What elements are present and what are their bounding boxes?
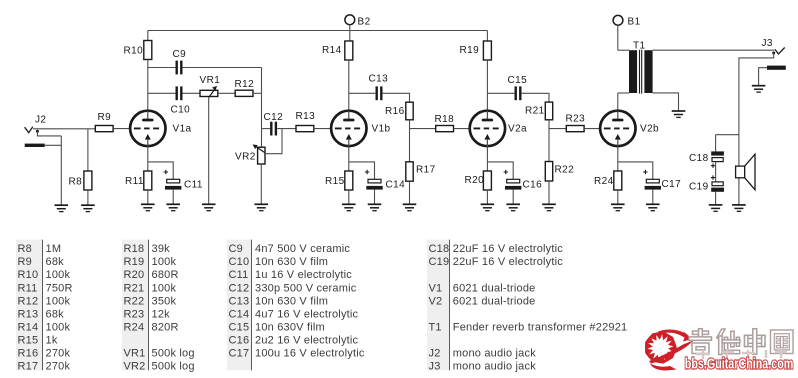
svg-text:VR1: VR1 <box>200 75 221 86</box>
wire J2 to R9 <box>33 128 95 130</box>
wire V2a cathode <box>486 146 488 171</box>
svg-text:22uF 16 V electrolytic: 22uF 16 V electrolytic <box>453 243 563 255</box>
svg-text:R9: R9 <box>18 256 32 268</box>
svg-text:C19: C19 <box>429 256 450 268</box>
ground C19 <box>709 205 723 211</box>
svg-text:R13: R13 <box>296 111 316 122</box>
wire VR1 wiper to ground <box>208 97 210 204</box>
wire VR2 to ground <box>260 164 262 204</box>
svg-text:B1: B1 <box>628 17 641 28</box>
svg-text:C13: C13 <box>369 74 389 85</box>
wire R10 to V1a plate <box>147 60 149 111</box>
ground R20 <box>481 204 495 210</box>
svg-text:Fender reverb transformer #229: Fender reverb transformer #22921 <box>453 322 628 334</box>
resistor R15 <box>325 171 353 190</box>
wire node A to C12 <box>262 128 271 130</box>
svg-text:J2: J2 <box>429 348 441 360</box>
wire C9 to node A <box>183 67 262 69</box>
wire C15 to R21 <box>522 93 549 102</box>
svg-text:T1: T1 <box>429 322 442 334</box>
watermark ghost row <box>696 349 787 359</box>
svg-text:C19: C19 <box>689 182 709 193</box>
svg-text:R18: R18 <box>124 243 145 255</box>
capacitor C16 <box>504 170 542 191</box>
svg-text:350k: 350k <box>152 295 177 307</box>
capacitor C15 <box>508 75 528 100</box>
watermark text 吉他中国 (drawn) <box>689 329 793 355</box>
ground R22 <box>542 204 556 210</box>
capacitor C11 <box>164 170 203 191</box>
svg-text:10n 630 V film: 10n 630 V film <box>255 256 328 268</box>
capacitor C17 <box>643 170 681 190</box>
svg-text:500k log: 500k log <box>152 361 195 373</box>
svg-text:C10: C10 <box>171 105 191 116</box>
wire T1 primary bottom <box>618 92 629 94</box>
resistor R19 <box>460 41 492 60</box>
wire R17 bottom lead <box>409 181 411 204</box>
svg-text:B2: B2 <box>358 17 371 28</box>
wire C17 bottom lead <box>652 190 654 205</box>
svg-text:100k: 100k <box>46 322 71 334</box>
wire R14 to V1b plate <box>348 60 350 111</box>
svg-text:12k: 12k <box>152 308 171 320</box>
ground C11 <box>166 204 180 210</box>
svg-text:C9: C9 <box>173 49 187 60</box>
svg-text:R17: R17 <box>416 165 436 176</box>
svg-text:R21: R21 <box>124 282 145 294</box>
svg-text:R15: R15 <box>18 335 39 347</box>
wire R20 bottom lead <box>486 190 488 204</box>
svg-text:R19: R19 <box>124 256 145 268</box>
ground J3 <box>752 86 766 92</box>
svg-text:10n 630 V film: 10n 630 V film <box>255 295 328 307</box>
wire C13 to R16 <box>383 93 410 102</box>
ground C14 <box>368 204 382 210</box>
wire plate to C10 <box>148 92 176 94</box>
svg-text:6021 dual-triode: 6021 dual-triode <box>453 282 536 294</box>
svg-text:68k: 68k <box>46 256 65 268</box>
jack J3 <box>762 38 786 70</box>
svg-text:J2: J2 <box>35 115 46 126</box>
svg-text:680R: 680R <box>152 269 179 281</box>
svg-text:R24: R24 <box>594 176 614 187</box>
wire rail to R19 <box>486 31 488 42</box>
svg-text:R14: R14 <box>18 322 39 334</box>
resistor R20 <box>465 171 492 190</box>
wire rail to R10 <box>147 31 149 41</box>
wire T1 secondary to ground <box>653 93 679 111</box>
svg-text:270k: 270k <box>46 361 71 373</box>
svg-text:270k: 270k <box>46 348 71 360</box>
svg-text:1M: 1M <box>46 243 62 255</box>
wire J2 tip contact <box>37 132 61 136</box>
svg-text:R20: R20 <box>465 175 485 186</box>
svg-text:R16: R16 <box>18 348 39 360</box>
wire R23 to V2b grid <box>584 128 600 130</box>
wire J2 sleeve <box>45 144 62 146</box>
svg-text:R12: R12 <box>18 295 39 307</box>
resistor R14 <box>322 41 353 60</box>
wire C14 bottom lead <box>374 190 376 205</box>
wire C19 bottom lead <box>715 192 717 205</box>
wire B2 to R14 <box>349 25 351 41</box>
svg-text:R21: R21 <box>525 106 545 117</box>
wire R12 to node A <box>253 92 262 94</box>
capacitor C14 <box>365 170 405 191</box>
svg-text:100k: 100k <box>46 269 71 281</box>
svg-text:bbs.GuitarChina.com: bbs.GuitarChina.com <box>685 355 794 372</box>
svg-text:C15: C15 <box>508 75 528 86</box>
ground R24 <box>611 204 625 210</box>
resistor R8 <box>69 171 92 190</box>
ground R17 <box>403 204 417 210</box>
resistor R18 <box>435 114 455 132</box>
svg-text:R15: R15 <box>325 176 345 187</box>
potentiometer VR2 <box>235 145 265 165</box>
svg-text:C13: C13 <box>229 295 250 307</box>
resistor R16 <box>385 102 413 120</box>
svg-text:V2: V2 <box>429 295 443 307</box>
wire V1a cathode <box>147 146 149 171</box>
wire cathode to C11 <box>148 162 173 179</box>
svg-text:C18: C18 <box>689 153 709 164</box>
resistor R17 <box>406 162 436 181</box>
ground speaker <box>732 205 746 211</box>
svg-text:R11: R11 <box>18 282 38 294</box>
capacitor C13 <box>369 74 389 101</box>
resistor R22 <box>545 162 574 182</box>
svg-text:C11: C11 <box>229 269 249 281</box>
svg-text:V2a: V2a <box>508 124 527 135</box>
wire R8 bottom lead <box>87 190 89 205</box>
svg-text:68k: 68k <box>46 308 65 320</box>
svg-text:10n 630V film: 10n 630V film <box>255 322 325 334</box>
svg-text:R18: R18 <box>435 114 455 125</box>
wire C10 to VR1 <box>183 92 201 94</box>
wire T1 primary top <box>618 49 629 51</box>
ground C16 <box>506 204 520 210</box>
ground R15 <box>342 204 356 210</box>
wire J3 tip to speaker <box>739 53 774 205</box>
wire VR2 wiper <box>265 129 282 154</box>
resistor R13 <box>296 111 316 132</box>
ground T1 <box>672 111 686 117</box>
svg-text:6021 dual-triode: 6021 dual-triode <box>453 295 536 307</box>
svg-text:R8: R8 <box>69 177 83 188</box>
wire cathode to C16 <box>487 162 513 179</box>
svg-text:39k: 39k <box>152 243 171 255</box>
svg-text:750R: 750R <box>46 282 73 294</box>
wire plate to C15 <box>487 92 514 94</box>
svg-text:R23: R23 <box>124 308 145 320</box>
svg-text:100k: 100k <box>46 295 71 307</box>
capacitor C9 <box>173 49 187 74</box>
svg-text:R17: R17 <box>18 361 39 373</box>
svg-text:C12: C12 <box>229 282 250 294</box>
svg-text:C18: C18 <box>429 243 450 255</box>
svg-text:1u 16 V electrolytic: 1u 16 V electrolytic <box>255 269 352 281</box>
wire node to R18 <box>410 128 436 130</box>
svg-text:V1: V1 <box>429 282 443 294</box>
wire R19 to V2a plate <box>486 60 488 111</box>
wire R15 bottom lead <box>348 190 350 204</box>
svg-text:22uF 16 V electrolytic: 22uF 16 V electrolytic <box>453 256 563 268</box>
svg-text:R24: R24 <box>124 322 145 334</box>
svg-text:VR2: VR2 <box>124 361 146 373</box>
ground R11 <box>141 204 155 210</box>
capacitor C10 <box>171 86 191 115</box>
potentiometer VR1 <box>200 75 221 98</box>
parts list table <box>16 240 43 371</box>
wire cathode to C17 <box>618 162 653 179</box>
svg-text:R9: R9 <box>98 112 112 123</box>
svg-text:C15: C15 <box>229 322 250 334</box>
svg-text:J3: J3 <box>762 38 773 49</box>
resistor R24 <box>594 171 622 190</box>
svg-text:C10: C10 <box>229 256 250 268</box>
svg-text:VR2: VR2 <box>235 152 256 163</box>
resistor R10 <box>124 41 152 60</box>
svg-text:R10: R10 <box>124 46 144 57</box>
wire R8 top lead <box>87 129 89 171</box>
svg-text:330p 500 V ceramic: 330p 500 V ceramic <box>255 282 357 294</box>
svg-text:C17: C17 <box>662 179 682 190</box>
wire plate to C13 <box>349 92 376 94</box>
svg-text:mono audio jack: mono audio jack <box>453 348 536 360</box>
wire V1b cathode <box>348 146 350 171</box>
wire cathode to C14 <box>349 162 375 179</box>
wire R18 to V2a grid <box>454 128 470 130</box>
svg-text:C14: C14 <box>229 308 250 320</box>
wire R21 to R22 <box>548 120 550 162</box>
wire R22 bottom lead <box>548 181 550 204</box>
svg-text:V1a: V1a <box>173 124 192 135</box>
wire plate to C9 <box>148 67 176 69</box>
ground VR2 <box>255 204 269 210</box>
wire J2 to ground <box>60 136 62 205</box>
svg-text:J3: J3 <box>429 361 441 373</box>
svg-text:C16: C16 <box>523 180 543 191</box>
svg-text:R22: R22 <box>555 165 575 176</box>
svg-text:820R: 820R <box>152 322 179 334</box>
svg-text:C9: C9 <box>229 243 243 255</box>
triode V2a <box>470 111 527 146</box>
wire R9 to V1a grid <box>113 128 130 130</box>
wire node to R23 <box>549 128 566 130</box>
svg-text:R12: R12 <box>235 79 255 90</box>
terminal B1 <box>613 15 640 27</box>
svg-text:C17: C17 <box>229 348 250 360</box>
capacitor C19 <box>689 175 724 192</box>
wire R13 to V1b grid <box>314 128 331 130</box>
wire T1 to V2b plate <box>617 93 619 111</box>
wire B1 to T1 <box>617 25 619 50</box>
terminal B2 <box>345 15 371 28</box>
wire B+ rail <box>148 30 488 32</box>
wire C16 bottom lead <box>512 190 514 205</box>
wire C12 to R13 <box>277 128 296 130</box>
wire node A vertical <box>261 68 263 148</box>
wire C11 bottom lead <box>172 190 174 205</box>
wire C18 to C19 <box>715 162 717 182</box>
svg-text:R20: R20 <box>124 269 145 281</box>
wire VR1 to R12 <box>218 92 235 94</box>
capacitor C18 <box>689 151 724 168</box>
svg-text:V1b: V1b <box>372 124 391 135</box>
wire R24 bottom lead <box>617 190 619 204</box>
svg-text:R22: R22 <box>124 295 145 307</box>
svg-text:R13: R13 <box>18 308 39 320</box>
svg-text:500k log: 500k log <box>152 348 195 360</box>
triode V1a <box>130 111 191 146</box>
svg-text:2u2 16 V electrolytic: 2u2 16 V electrolytic <box>255 335 359 347</box>
svg-text:R16: R16 <box>385 106 405 117</box>
ground VR1 <box>202 204 216 210</box>
svg-text:100k: 100k <box>152 256 177 268</box>
ground C17 <box>646 204 660 210</box>
triode V1b <box>331 111 390 146</box>
svg-text:4u7 16 V electrolytic: 4u7 16 V electrolytic <box>255 308 359 320</box>
jack J2 <box>25 115 47 148</box>
ground R8 <box>81 205 95 211</box>
wire T1 secondary to J3 <box>653 49 774 51</box>
svg-text:C14: C14 <box>386 180 406 191</box>
speaker LS <box>736 154 755 190</box>
svg-text:4n7 500 V ceramic: 4n7 500 V ceramic <box>255 243 350 255</box>
resistor R11 <box>125 171 152 190</box>
transformer T1 <box>629 41 653 94</box>
svg-text:R10: R10 <box>18 269 39 281</box>
svg-text:100k: 100k <box>152 282 177 294</box>
watermark logo guitarchina <box>645 329 695 370</box>
svg-text:C11: C11 <box>184 180 203 191</box>
svg-text:100u 16 V electrolytic: 100u 16 V electrolytic <box>255 348 365 360</box>
wire R11 bottom lead <box>147 190 149 204</box>
wire J3 sleeve to ground <box>759 68 767 86</box>
ground J2 <box>55 205 69 211</box>
resistor R21 <box>525 102 553 120</box>
svg-text:C16: C16 <box>229 335 250 347</box>
svg-text:VR1: VR1 <box>124 348 146 360</box>
wire to C18 <box>715 135 717 152</box>
wire V2b cathode <box>617 146 619 171</box>
svg-text:R14: R14 <box>322 45 342 56</box>
wire speaker branch <box>716 134 739 136</box>
svg-text:V2b: V2b <box>640 124 659 135</box>
svg-text:1k: 1k <box>46 335 58 347</box>
svg-text:R11: R11 <box>125 176 144 187</box>
resistor R9 <box>95 112 113 132</box>
svg-text:mono audio jack: mono audio jack <box>453 361 536 373</box>
wire R16 to R17 <box>409 120 411 162</box>
capacitor C12 <box>264 112 284 136</box>
resistor R23 <box>566 114 586 132</box>
svg-text:R23: R23 <box>566 114 586 125</box>
resistor R12 <box>235 79 255 96</box>
svg-text:C12: C12 <box>264 112 284 123</box>
triode V2b <box>600 111 659 146</box>
svg-text:R8: R8 <box>18 243 32 255</box>
svg-text:R19: R19 <box>460 45 480 56</box>
